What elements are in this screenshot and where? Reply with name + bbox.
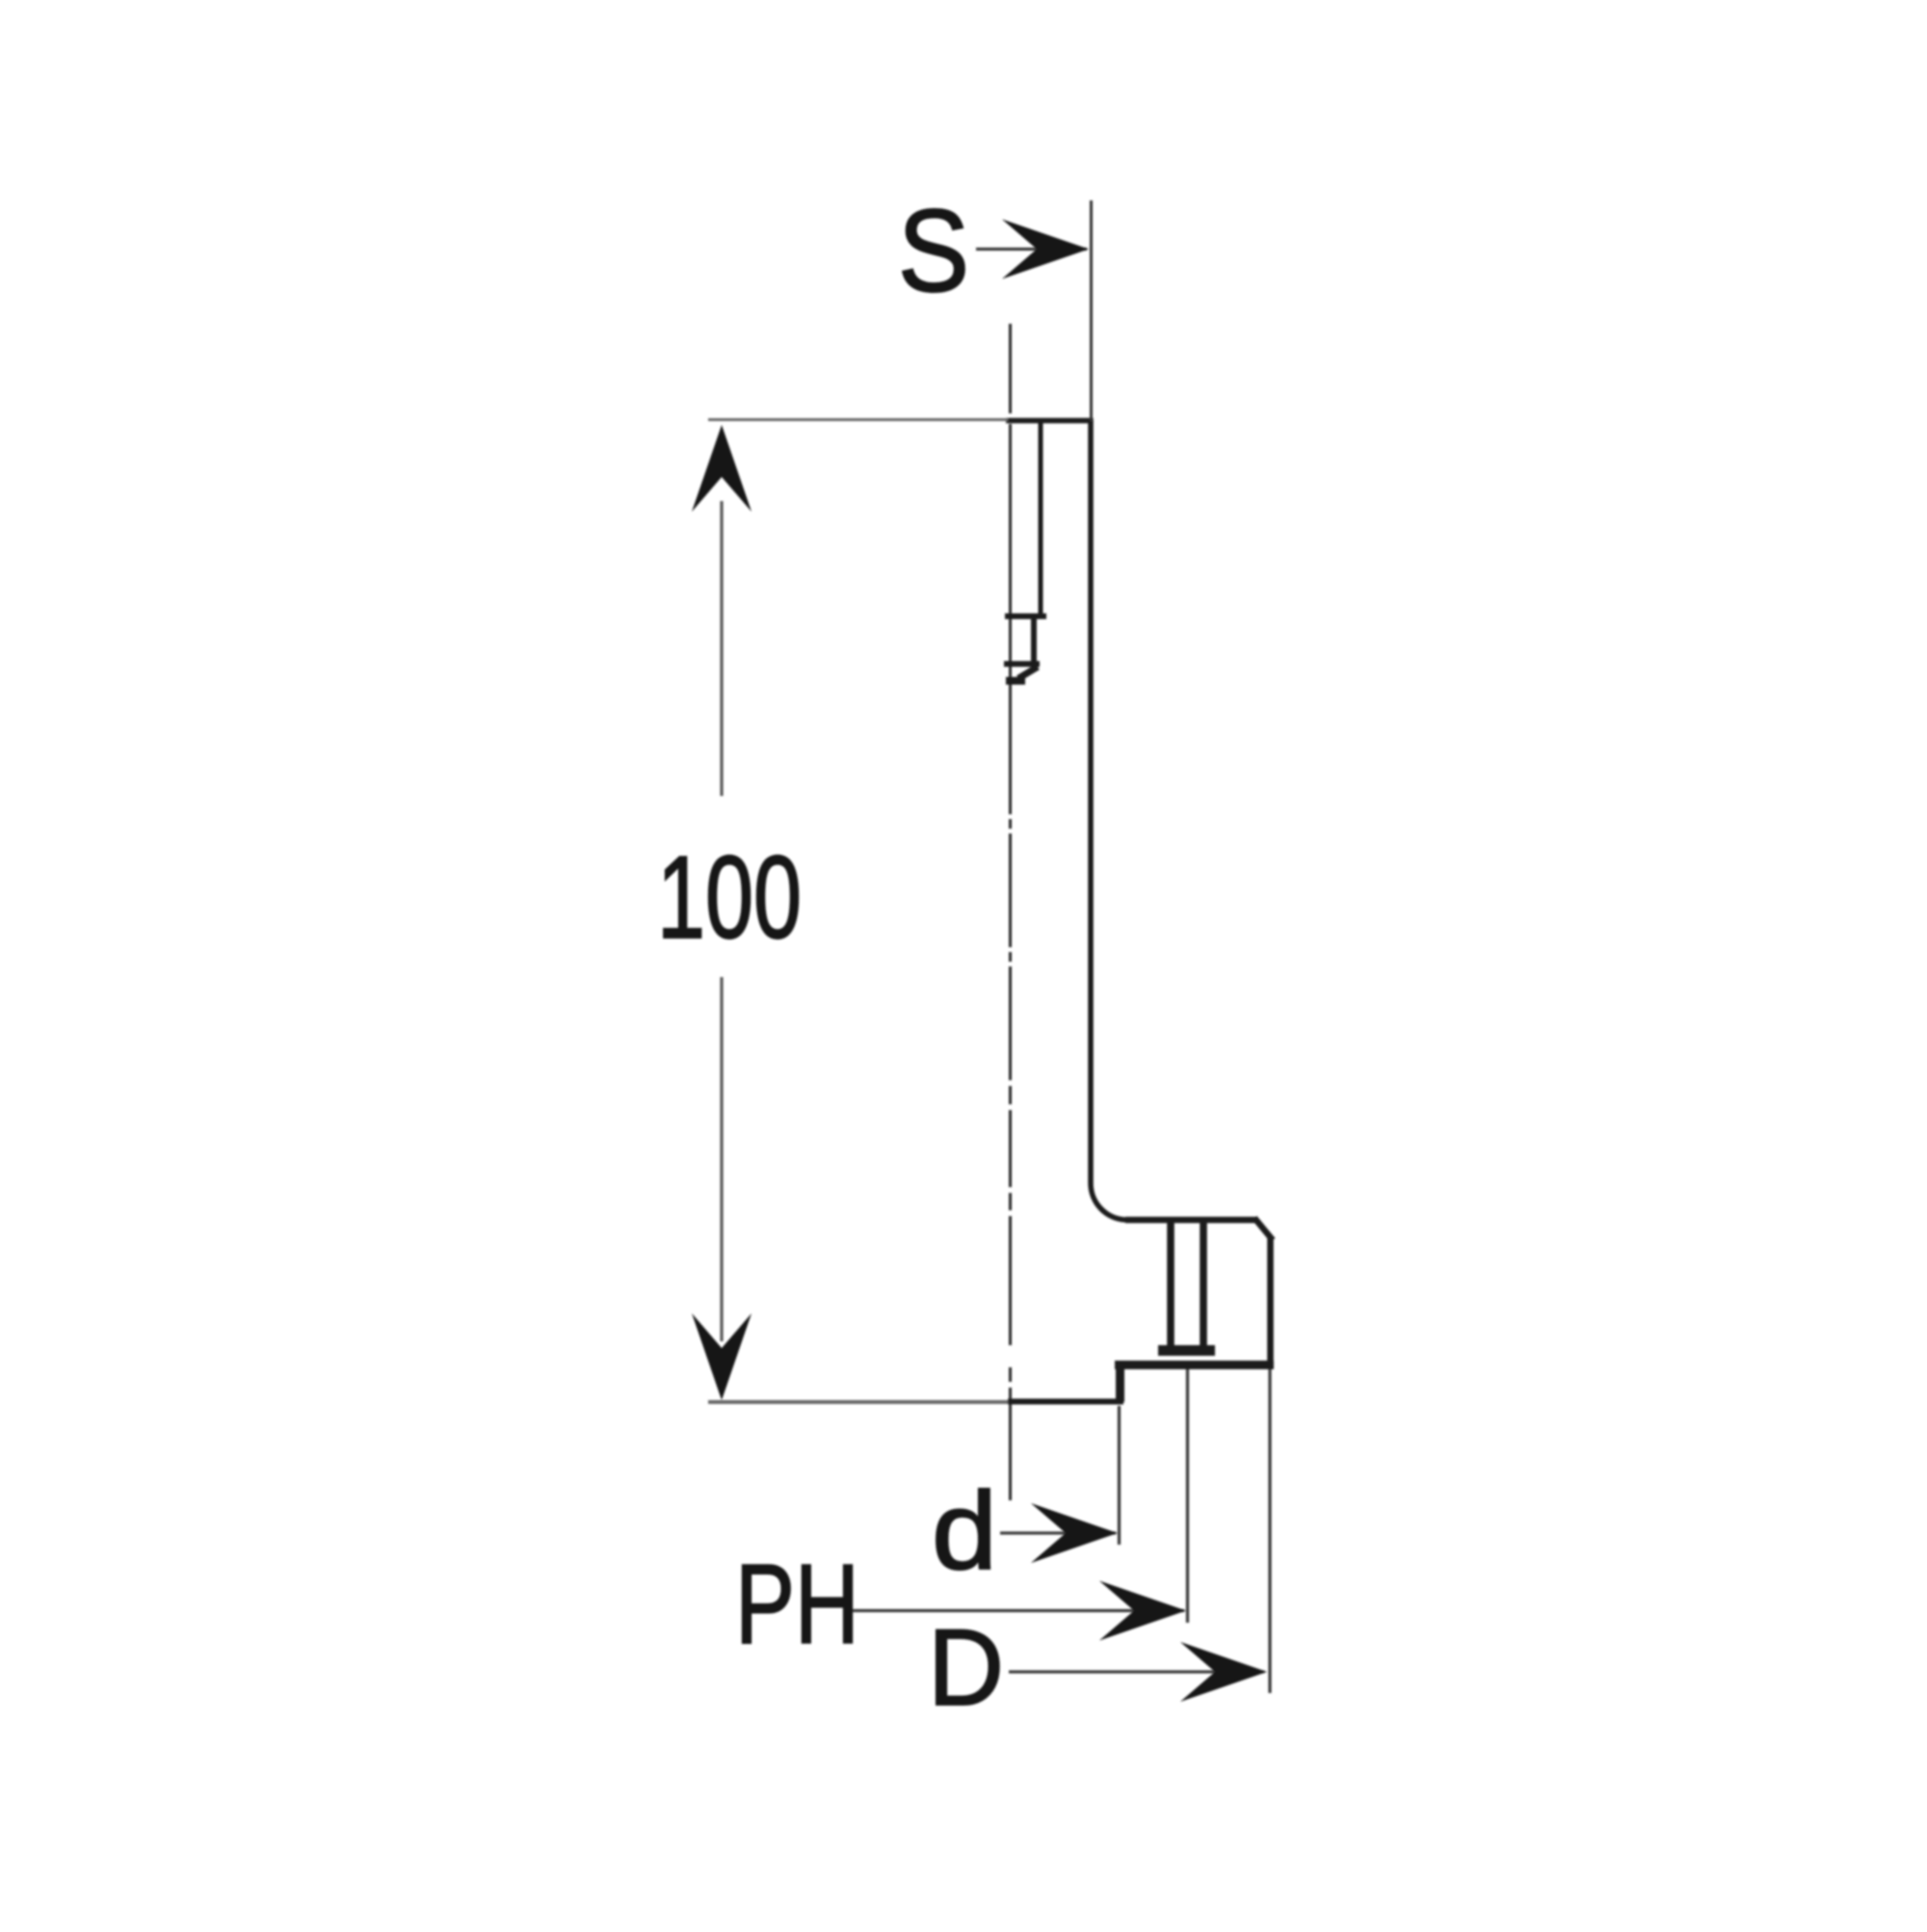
dimension d arrowhead bbox=[1031, 1503, 1118, 1563]
wire: hub top edge bbox=[1125, 1217, 1257, 1224]
dimension PH leader line bbox=[852, 1609, 1184, 1612]
wire: step at bore d bbox=[1116, 1362, 1124, 1402]
wire: hub outer edge bbox=[1267, 1237, 1274, 1364]
dimension 100 down arrowhead bbox=[692, 1313, 752, 1400]
svg-text:D: D bbox=[928, 1607, 1004, 1728]
node: tapped hole step 1 bbox=[1005, 614, 1046, 620]
dimension 100 line lower segment bbox=[720, 977, 723, 1341]
node: hub hole left wall bbox=[1167, 1220, 1175, 1349]
centerline (part axis, dash-dot) bbox=[1009, 324, 1012, 1500]
node: drill cone tip bbox=[1018, 667, 1038, 678]
dimension 100 bottom extension line bbox=[708, 1400, 1008, 1404]
dimension S leader line bbox=[976, 248, 1087, 251]
dimension d extension line bbox=[1118, 1406, 1121, 1545]
dimension 100 top extension line bbox=[708, 418, 1008, 421]
svg-text:S: S bbox=[898, 185, 969, 316]
wire: hub bottom edge bbox=[1115, 1361, 1274, 1369]
svg-text:100: 100 bbox=[657, 832, 802, 963]
wire: bottom edge at centre bbox=[1008, 1399, 1123, 1405]
wire: fillet arc into hub bbox=[1091, 1183, 1127, 1220]
wire: right edge of flange web bbox=[1088, 418, 1094, 1183]
node: tapped hole step 2 bbox=[1004, 661, 1040, 667]
node: hub hole right wall bbox=[1200, 1220, 1207, 1349]
node: hub hole bottom band bbox=[1158, 1345, 1215, 1356]
node: tapped hole right wall bbox=[1039, 421, 1043, 618]
dimension D extension line bbox=[1268, 1369, 1271, 1693]
dimension D leader line bbox=[1009, 1670, 1264, 1673]
dimension D arrowhead bbox=[1180, 1642, 1267, 1702]
dimension 100 line upper segment bbox=[720, 501, 723, 796]
dimension PH arrowhead bbox=[1099, 1581, 1186, 1641]
dimension 100 up arrowhead bbox=[692, 425, 752, 512]
dimension PH extension line bbox=[1186, 1369, 1189, 1623]
wire: top edge of flange bbox=[1006, 418, 1094, 424]
dimension S extension line bbox=[1090, 200, 1093, 421]
wire: hub chamfer bbox=[1254, 1218, 1273, 1240]
dimension S arrowhead bbox=[1002, 220, 1089, 279]
node: tapped hole inner wall bbox=[1031, 616, 1037, 664]
dimension d leader line bbox=[1000, 1531, 1116, 1534]
svg-text:PH: PH bbox=[735, 1541, 859, 1667]
svg-text:d: d bbox=[932, 1470, 997, 1593]
